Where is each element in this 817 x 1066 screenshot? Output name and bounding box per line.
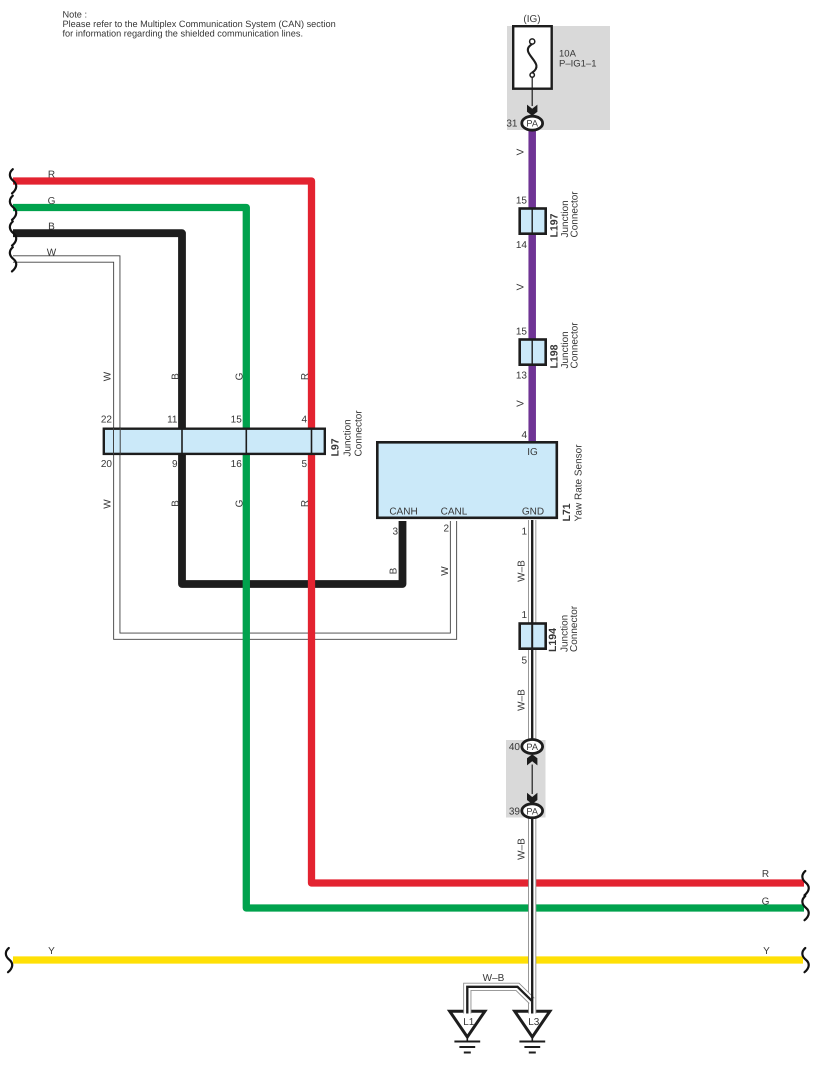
- svg-text:Y: Y: [48, 946, 55, 957]
- junction connector L194 box: [520, 623, 546, 649]
- svg-text:R: R: [300, 373, 311, 380]
- svg-text:W: W: [103, 499, 114, 509]
- svg-text:4: 4: [301, 415, 307, 426]
- svg-text:W–B: W–B: [517, 560, 528, 582]
- junction connector L197 box: [520, 208, 546, 234]
- svg-text:PA: PA: [526, 806, 538, 816]
- svg-text:Connector: Connector: [570, 322, 581, 369]
- svg-text:PA: PA: [526, 118, 538, 128]
- svg-text:5: 5: [301, 459, 307, 470]
- break symbol (left, wire B): [10, 221, 16, 245]
- label L71 Yaw Rate Sensor: [561, 444, 585, 522]
- break symbol (left, wire W): [10, 247, 16, 271]
- wire end labels left: R G B W Y: [47, 169, 57, 957]
- svg-text:G: G: [762, 896, 770, 907]
- svg-text:B: B: [48, 222, 55, 233]
- svg-text:L194: L194: [547, 628, 559, 652]
- wire B (black) CANH path: left entry, down through L97, right, up to CANH pin 3: [13, 233, 403, 584]
- connector 31 PA oval: [522, 116, 543, 130]
- label L197 Junction Connector: [549, 191, 581, 238]
- svg-text:V: V: [516, 400, 527, 407]
- svg-text:16: 16: [231, 459, 243, 470]
- svg-text:for information regarding the: for information regarding the shielded c…: [63, 28, 304, 38]
- break symbol (right, wire Y): [802, 948, 808, 972]
- svg-text:IG: IG: [527, 447, 538, 458]
- junction connector L97 bar: [104, 428, 325, 455]
- wire W-B branch to ground L1: [467, 987, 532, 1014]
- svg-text:4: 4: [521, 430, 527, 441]
- svg-text:W: W: [103, 371, 114, 381]
- svg-text:G: G: [235, 372, 246, 380]
- svg-text:Yaw Rate Sensor: Yaw Rate Sensor: [574, 444, 585, 522]
- label L198 Junction Connector: [549, 322, 581, 369]
- svg-text:W–B: W–B: [517, 689, 528, 711]
- svg-text:1: 1: [521, 610, 527, 621]
- wire R (red) path: left entry, down right side, exit right: [13, 181, 804, 883]
- svg-text:G: G: [235, 499, 246, 507]
- svg-text:W: W: [47, 247, 57, 258]
- svg-text:B: B: [171, 500, 182, 507]
- note text: [63, 10, 336, 39]
- svg-text:L71: L71: [561, 503, 573, 521]
- svg-text:20: 20: [101, 459, 113, 470]
- label L97 Junction Connector: [330, 410, 365, 457]
- svg-text:L3: L3: [528, 1017, 540, 1028]
- svg-text:W–B: W–B: [483, 973, 505, 984]
- svg-text:Connector: Connector: [569, 605, 580, 652]
- L97 pins above: 22 11 15 4: [101, 415, 308, 426]
- svg-text:14: 14: [516, 240, 528, 251]
- svg-text:PA: PA: [526, 742, 538, 752]
- svg-text:P–IG1–1: P–IG1–1: [559, 59, 597, 70]
- svg-text:B: B: [171, 373, 182, 380]
- svg-text:L197: L197: [549, 213, 561, 237]
- svg-text:15: 15: [516, 196, 528, 207]
- break symbol (left, wire R): [10, 169, 16, 193]
- svg-text:V: V: [516, 148, 527, 155]
- svg-text:W: W: [440, 566, 451, 576]
- svg-text:R: R: [300, 500, 311, 507]
- wire V (violet) from fuse connector to sensor IG pin: [528, 129, 536, 442]
- L97 pins below: 20 9 16 5: [101, 459, 308, 470]
- svg-text:39: 39: [509, 806, 521, 817]
- wire W-B lower segment: connector 39 down to ground L3: [528, 813, 536, 1014]
- svg-text:22: 22: [101, 415, 113, 426]
- wire Y (yellow) horizontal: [13, 956, 803, 963]
- connector 39 PA oval with arrow: [522, 793, 543, 818]
- break symbol (left, wire Y): [6, 948, 12, 972]
- svg-text:Connector: Connector: [570, 191, 581, 238]
- wire W-B (white/black) upper segment: GND pin down to connector 40: [528, 520, 536, 744]
- svg-text:5: 5: [521, 656, 527, 667]
- svg-text:GND: GND: [522, 507, 544, 518]
- yaw rate sensor L71 box: [377, 442, 557, 518]
- svg-text:Y: Y: [763, 946, 770, 957]
- svg-text:15: 15: [516, 327, 528, 338]
- wire end labels right: R G Y: [762, 869, 771, 957]
- svg-text:31: 31: [506, 119, 518, 130]
- svg-text:11: 11: [167, 415, 178, 426]
- svg-text:B: B: [389, 567, 400, 574]
- svg-text:CANH: CANH: [389, 507, 417, 518]
- svg-text:9: 9: [172, 459, 178, 470]
- break symbol (right, wire G): [802, 896, 808, 920]
- svg-text:L97: L97: [330, 438, 342, 456]
- svg-text:1: 1: [521, 526, 527, 537]
- fuse P-IG1-1 symbol: [513, 26, 552, 106]
- gray panel (PA pass-through connectors 40/39): [506, 740, 546, 818]
- wire G (green) path: [13, 208, 804, 909]
- ground L3 symbol (triangle and earth bars): [515, 1011, 550, 1052]
- svg-text:R: R: [762, 869, 769, 880]
- junction connector L198 box: [520, 339, 546, 365]
- svg-text:L1: L1: [463, 1017, 475, 1028]
- svg-text:W–B: W–B: [517, 838, 528, 860]
- svg-text:V: V: [516, 283, 527, 290]
- svg-text:G: G: [48, 196, 56, 207]
- svg-text:Junction: Junction: [343, 419, 354, 456]
- break symbol (right, wire R): [802, 871, 808, 895]
- svg-text:CANL: CANL: [441, 507, 468, 518]
- svg-text:40: 40: [509, 742, 521, 753]
- svg-text:R: R: [48, 169, 55, 180]
- svg-text:(IG): (IG): [523, 14, 540, 25]
- svg-text:15: 15: [231, 415, 243, 426]
- svg-text:13: 13: [516, 371, 528, 382]
- arrow into connector 31: [527, 105, 537, 116]
- svg-text:2: 2: [443, 524, 449, 535]
- svg-text:Connector: Connector: [354, 410, 365, 457]
- connector 40 PA oval with arrow: [522, 740, 543, 795]
- label L194 Junction Connector: [547, 605, 580, 652]
- fuse block gray panel: [507, 26, 610, 130]
- break symbol (left, wire G): [10, 196, 16, 220]
- wire W (shield drain, hollow white wire): left entry, down, along bottom, up to CANL pin 2: [13, 259, 454, 636]
- svg-text:L198: L198: [549, 344, 561, 368]
- ground L1 symbol (triangle and earth bars): [450, 1011, 485, 1052]
- wire W-B black stripes: [531, 520, 533, 744]
- svg-text:3: 3: [392, 526, 398, 537]
